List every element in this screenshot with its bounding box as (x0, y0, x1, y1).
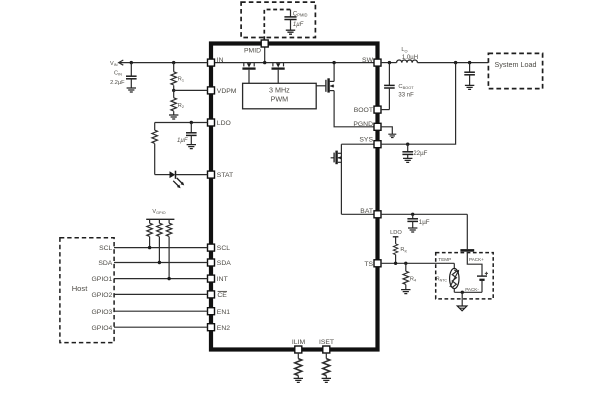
capacitor CIN 2.2uF (110, 63, 137, 88)
LED D1 status (155, 171, 208, 189)
ground at CPMID (286, 30, 295, 34)
svg-text:GPIO1: GPIO1 (92, 276, 113, 283)
pin VDPM (208, 87, 237, 95)
node VGPIO rail (146, 209, 174, 220)
capacitor 22uF SYS (402, 144, 427, 158)
svg-text:ISET: ISET (319, 339, 334, 346)
node CIN junction (130, 61, 133, 64)
svg-text:SYS: SYS (359, 137, 373, 144)
wire PGND pin to ground (381, 127, 392, 134)
node CBOOT junction (388, 61, 391, 64)
svg-text:CPMID: CPMID (293, 11, 308, 17)
pin SYS (359, 137, 381, 148)
svg-text:1µF: 1µF (419, 219, 430, 226)
svg-text:3 MHz: 3 MHz (269, 85, 290, 94)
svg-text:1µF: 1µF (177, 138, 188, 144)
resistor RISET (323, 353, 330, 378)
pin TS (364, 260, 381, 268)
node PMID junction (263, 61, 266, 64)
node VIN input (110, 60, 123, 67)
node pack ground junction (461, 291, 464, 294)
wire inductor to system load (417, 62, 488, 64)
optional PMID box outer (241, 2, 315, 37)
svg-text:SCL: SCL (99, 245, 112, 252)
pin SCL (208, 244, 231, 252)
svg-text:Host: Host (72, 284, 89, 293)
wire Q3 drain to SW rail (333, 63, 335, 82)
wire LDO pin left (155, 122, 208, 124)
svg-text:33 nF: 33 nF (398, 93, 414, 99)
resistor pullup SCL (147, 219, 153, 247)
wire SW pin to inductor (381, 62, 397, 64)
svg-text:INT: INT (217, 276, 228, 283)
capacitor system output (464, 63, 475, 86)
svg-text:VGPIO: VGPIO (152, 209, 165, 215)
inductor LO 1.0uH (397, 47, 418, 62)
svg-text:PACK+: PACK+ (469, 257, 484, 262)
resistor pullup SDA (157, 219, 163, 262)
svg-text:2.2µF: 2.2µF (110, 80, 125, 86)
svg-text:CIN: CIN (114, 70, 122, 76)
ground at CIN (127, 88, 136, 92)
thermistor RNTC (436, 263, 459, 292)
pin BAT (360, 208, 381, 218)
wire BAT drop to PACK+ (466, 214, 468, 249)
svg-text:PGND: PGND (353, 121, 373, 128)
svg-text:IN: IN (217, 57, 224, 64)
PWM block 3 MHz (243, 83, 317, 109)
svg-text:PACK-: PACK- (465, 287, 479, 292)
wire to VDPM pin (174, 89, 208, 91)
resistor R4 TS pulldown (403, 263, 417, 289)
resistor RILIM (295, 353, 302, 378)
Host block (60, 238, 114, 343)
resistor R1 (171, 63, 184, 91)
node BAT cap junction (411, 213, 414, 216)
node LDO pullup TS (390, 230, 402, 237)
svg-text:GPIO3: GPIO3 (92, 309, 113, 316)
node SCL junction (148, 246, 151, 249)
svg-text:CBOOT: CBOOT (398, 84, 414, 90)
svg-text:GPIO4: GPIO4 (92, 325, 113, 332)
pin IN (208, 57, 224, 66)
resistor STAT LED series (152, 123, 158, 175)
battery cell BT1 (467, 252, 488, 293)
svg-text:GPIO2: GPIO2 (92, 292, 113, 299)
svg-text:R4: R4 (410, 276, 417, 282)
svg-text:TEMP: TEMP (438, 257, 451, 262)
wire PWM gate to Q3 (316, 85, 325, 87)
wire VIN to IN pin (119, 62, 208, 64)
pin ISET (319, 339, 334, 353)
node VDPM junction (172, 89, 175, 92)
System Load block (488, 53, 542, 88)
node SYS rail junction (454, 61, 457, 64)
capacitor CBOOT 33nF (384, 63, 414, 110)
wire SDA (114, 262, 208, 264)
wire GPIO1 to INT (114, 278, 208, 280)
svg-text:BAT: BAT (360, 208, 373, 215)
node RK junction (394, 262, 397, 265)
capacitor CPMID 1uF (284, 10, 307, 31)
svg-text:PMID: PMID (244, 48, 261, 55)
svg-text:LO: LO (401, 47, 407, 53)
wire Q4 vertical SYS to BAT (340, 144, 342, 214)
wire pack ground stem (461, 292, 463, 306)
svg-text:CE: CE (217, 292, 227, 299)
svg-text:RNTC: RNTC (436, 276, 447, 282)
pin PGND (353, 121, 381, 130)
wire BAT pin to pack (381, 213, 467, 215)
svg-text:R2: R2 (178, 103, 184, 109)
svg-text:STAT: STAT (217, 172, 233, 179)
svg-text:VDPM: VDPM (217, 88, 237, 95)
battery pack terminal tab (460, 249, 474, 252)
wire GPIO3 to EN1 (114, 310, 208, 312)
wire SYS drop (381, 63, 456, 145)
transistor Q3 (sync NMOS SW-PGND) (326, 78, 334, 92)
node Q3 drain junction (332, 61, 335, 64)
node system cap junction (468, 61, 471, 64)
ground at R2 (169, 115, 178, 119)
svg-text:22µF: 22µF (413, 150, 427, 157)
svg-text:RK: RK (400, 247, 407, 253)
wire PMID pin to top rail (264, 47, 266, 63)
ground at 22uF (403, 158, 412, 162)
svg-text:System Load: System Load (495, 60, 537, 69)
transistor Q2 (input PMOS) (272, 63, 285, 84)
capacitor LDO 1uF (177, 123, 197, 145)
pin EN1 (208, 308, 231, 316)
svg-text:EN1: EN1 (217, 309, 230, 316)
svg-text:1.0µH: 1.0µH (402, 55, 418, 61)
pin INT (208, 275, 228, 283)
svg-text:SCL: SCL (217, 245, 230, 252)
wire GPIO4 to EN2 (114, 326, 208, 328)
pin SW (362, 57, 381, 66)
pin STAT (208, 171, 234, 179)
wire SYS pin to Q4 (341, 143, 376, 145)
ground at PGND (388, 134, 396, 137)
svg-text:LDO: LDO (390, 230, 402, 236)
node SDA junction (158, 261, 161, 264)
wire dashed PMID to CPMID (264, 10, 290, 41)
wire internal top rail IN to SW (212, 62, 376, 64)
pin BOOT (354, 106, 381, 114)
svg-text:1µF: 1µF (293, 22, 304, 28)
ground at R4 (401, 290, 410, 294)
resistor R2 (171, 90, 184, 115)
IC body U1 (211, 44, 378, 350)
transistor Q4 (battery PMOS SYS-BAT) (331, 151, 342, 165)
ground at RILIM (294, 378, 303, 382)
svg-text:TS: TS (364, 261, 373, 268)
node R4 junction (404, 262, 407, 265)
ground at BAT cap (408, 228, 417, 232)
wire Q4 to BAT pin (341, 213, 376, 215)
pin ILIM (292, 339, 306, 353)
wire pack bottom (454, 291, 482, 293)
svg-text:SDA: SDA (98, 260, 112, 267)
svg-text:PWM: PWM (271, 95, 289, 104)
resistor RK TS pullup (393, 237, 407, 263)
node R1 top junction (172, 61, 175, 64)
transistor Q1 (input PMOS) (242, 63, 255, 84)
pin SDA (208, 259, 232, 267)
svg-text:EN2: EN2 (217, 325, 230, 332)
resistor pullup INT (166, 219, 172, 278)
capacitor BAT 1uF (407, 214, 429, 228)
node 22uF junction (406, 143, 409, 146)
ground at RISET (322, 378, 331, 382)
pin CE active low (208, 291, 228, 299)
ground at battery pack (457, 306, 467, 311)
svg-text:ILIM: ILIM (292, 339, 306, 346)
svg-text:VIN: VIN (110, 61, 118, 67)
pin LDO (208, 119, 231, 127)
svg-text:SW: SW (362, 57, 374, 64)
svg-text:BOOT: BOOT (354, 107, 373, 114)
svg-text:SDA: SDA (217, 260, 231, 267)
pin EN2 (208, 324, 231, 332)
wire Q3 source to PGND pin (334, 91, 376, 127)
battery pack box (436, 253, 494, 299)
wire SCL (114, 247, 208, 249)
node INT junction (167, 277, 170, 280)
svg-text:LDO: LDO (217, 120, 231, 127)
wire CBOOT to BOOT pin (381, 109, 389, 111)
wire GPIO2 to CE (114, 293, 208, 295)
node LDO cap junction (190, 121, 193, 124)
ground at LDO cap (187, 145, 196, 149)
svg-text:R1: R1 (178, 77, 184, 83)
wire TS pin to thermistor (381, 262, 454, 264)
pin PMID (244, 40, 268, 55)
ground at system cap (465, 85, 474, 89)
